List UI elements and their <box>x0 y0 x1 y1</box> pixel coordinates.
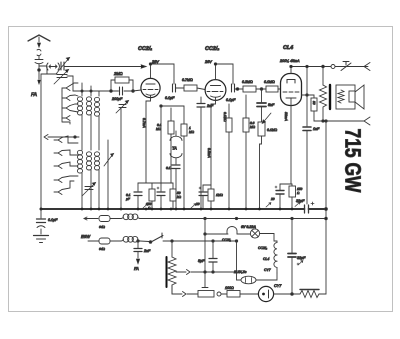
lower band switch contact 3 <box>54 164 62 169</box>
tube CC2/1 <box>141 78 160 97</box>
svg-text:20: 20 <box>270 197 275 201</box>
bus electrolytic 32uF <box>305 202 315 213</box>
voltage dropper zigzag <box>168 241 176 294</box>
heater line lamp <box>205 233 228 235</box>
capacitor 5uF <box>209 241 217 272</box>
upper band switch contact 1 <box>62 86 70 92</box>
svg-text:TA: TA <box>172 146 177 151</box>
screen resistor CC2/2 <box>226 104 232 209</box>
main ground bus <box>41 208 326 210</box>
mains line row 2 <box>88 240 99 242</box>
RF transformer lower winding 2 <box>86 152 91 209</box>
svg-text:FA: FA <box>134 266 139 271</box>
padder switch arrow <box>104 140 114 209</box>
svg-text:6V 0.22A: 6V 0.22A <box>241 225 256 229</box>
voltage dropper bar <box>166 257 168 287</box>
electrolytic leg <box>157 183 165 209</box>
oscillator trimmer <box>116 101 129 210</box>
connector fork bottom <box>364 117 370 125</box>
screen feed from rail <box>306 67 308 96</box>
speaker plug connector <box>331 65 335 69</box>
svg-text:0.1µF: 0.1µF <box>165 96 175 100</box>
tapped fuse box <box>198 288 214 298</box>
svg-text:kΩ: kΩ <box>177 195 182 199</box>
ground symbol <box>34 236 49 243</box>
svg-text:1nF: 1nF <box>313 127 320 131</box>
cathode bracket <box>138 182 173 184</box>
right rail from 32uF <box>288 219 299 295</box>
svg-text:80: 80 <box>312 101 316 105</box>
svg-text:28V: 28V <box>151 60 159 64</box>
svg-text:CC2/₂: CC2/₂ <box>258 246 268 250</box>
capacitor 2nF mains <box>134 240 142 264</box>
cathode line CC2/2 <box>211 101 216 189</box>
resistor 150ohm leg <box>149 183 155 209</box>
antenna series capacitor <box>35 56 43 69</box>
svg-text:64Ω: 64Ω <box>99 225 106 229</box>
electrolytic 20uF CL4 <box>275 184 284 209</box>
svg-text:64Ω: 64Ω <box>99 247 106 251</box>
fuse resistor 1 <box>99 216 110 222</box>
bus node dots <box>40 208 328 211</box>
band separator contact <box>44 135 79 140</box>
cathode resistor 1M CC2/2 <box>208 189 214 209</box>
svg-text:CY7: CY7 <box>264 268 271 272</box>
electrolytic 20uF <box>199 185 211 209</box>
node after cap <box>236 88 239 91</box>
lower band switch contact 2 <box>54 151 62 156</box>
svg-text:0.7mA: 0.7mA <box>142 118 146 129</box>
anode resistor 0.6M <box>243 95 249 209</box>
node junction <box>38 69 41 72</box>
lower contact tap wires <box>62 136 78 190</box>
tuning line to grid <box>65 65 147 68</box>
svg-text:CC2/₁: CC2/₁ <box>138 46 152 52</box>
grid line node <box>73 90 111 92</box>
anode bracket CC2/1 <box>151 64 175 84</box>
capacitor 0.1uF leg <box>134 183 142 209</box>
svg-text:200V, 45mA: 200V, 45mA <box>279 59 300 63</box>
RF transformer upper winding 2 <box>86 86 91 150</box>
RF transformer lower winding 3 <box>94 152 99 209</box>
svg-text:0.1MΩ: 0.1MΩ <box>264 80 275 84</box>
coupling capacitor 0.1uF <box>232 84 244 92</box>
polarity arrow <box>298 261 303 265</box>
upper band switch contact 4 <box>62 116 70 121</box>
tube CC2/2 <box>205 80 226 101</box>
wire grid to tube <box>133 90 141 91</box>
svg-text:FA: FA <box>31 92 38 98</box>
cathode line CC2/1 <box>146 98 151 183</box>
RF transformer upper winding 3 <box>94 91 99 150</box>
plug contact circle <box>217 292 221 296</box>
fuse resistor 2 <box>99 238 110 244</box>
polarity arrow <box>191 204 196 208</box>
svg-text:CC2/₂: CC2/₂ <box>205 46 219 52</box>
ground capacitor 0.1uF <box>37 209 46 234</box>
antenna <box>28 35 50 47</box>
speaker <box>336 85 364 109</box>
screen resistor 0.1M CC2/1 <box>168 108 174 183</box>
heater chain wire <box>260 234 277 242</box>
cathode bracket CL4 <box>280 183 292 185</box>
output transformer primary <box>320 67 327 122</box>
resistor 8ohm box <box>302 95 318 121</box>
wire to rectifier <box>240 293 259 295</box>
volume potentiometer 0.1M <box>258 113 271 209</box>
svg-text:0.1µF: 0.1µF <box>226 98 236 102</box>
grid leak resistor 2M <box>111 77 133 91</box>
resistor 0.1M <box>266 86 278 92</box>
bottom tap contact <box>172 285 198 297</box>
capacitor 0.1 <box>172 165 180 209</box>
svg-text:5µF: 5µF <box>198 259 205 263</box>
svg-text:30mA: 30mA <box>284 112 288 122</box>
tube CL4 <box>281 74 302 106</box>
anode bracket CC2/2 <box>216 64 234 84</box>
heater dropper resistor <box>300 290 326 298</box>
wire to CL4 grid <box>278 88 281 90</box>
svg-text:5nF: 5nF <box>268 103 275 107</box>
resistor 0.2M <box>243 86 256 92</box>
heater bumps CY7 <box>274 261 277 273</box>
svg-text:EUIX,5c: EUIX,5c <box>234 270 247 274</box>
mains choke 1 arrow <box>84 217 98 220</box>
capacitor 5nF <box>257 89 266 122</box>
CL4 cathode leg <box>290 106 292 185</box>
lower band switch contact 5 <box>54 190 62 195</box>
RF transformer lower winding 1 <box>77 150 82 209</box>
lower band switch contact 1 <box>54 138 62 143</box>
grid capacitor 200pF <box>111 87 133 95</box>
tap middle contact <box>176 270 237 275</box>
polarity arrow <box>266 203 271 207</box>
svg-text:CC2/₁: CC2/₁ <box>222 238 231 242</box>
polarity arrow <box>143 204 148 208</box>
capacitor 1nF <box>303 95 311 204</box>
svg-text:0.1MΩ: 0.1MΩ <box>267 128 278 132</box>
upper band switch contact 2 <box>62 96 70 101</box>
svg-text:MΩ: MΩ <box>189 130 195 134</box>
node between resistors <box>260 88 263 91</box>
svg-text:CL4: CL4 <box>263 257 269 261</box>
dial lamp <box>250 229 259 238</box>
svg-text:0.8mA: 0.8mA <box>207 148 211 159</box>
resistor 150ohm CL4 <box>289 184 296 209</box>
lower band switch contact 4 <box>54 178 62 183</box>
svg-text:32µF: 32µF <box>296 199 305 203</box>
mains switch <box>149 233 237 243</box>
choke coil 2 <box>110 236 149 242</box>
heater bumps CL4 <box>274 255 277 261</box>
FA down arrow <box>38 72 41 85</box>
trimmer capacitor <box>47 66 73 84</box>
transformer core <box>329 85 331 109</box>
svg-text:2nF: 2nF <box>206 104 214 108</box>
node line to 1M <box>161 105 184 107</box>
wave-change symbol <box>39 63 59 70</box>
choke coil 1 <box>110 214 140 220</box>
resistor 100ohm <box>227 291 240 298</box>
lower trimmer capacitor <box>82 183 96 197</box>
svg-text:2MΩ: 2MΩ <box>113 71 123 76</box>
polarity arrow <box>295 202 300 206</box>
svg-text:0.1MΩ: 0.1MΩ <box>223 112 227 122</box>
screen node <box>306 94 308 96</box>
resistor 50k leg <box>170 183 176 209</box>
RF transformer upper winding 1 <box>77 83 82 150</box>
svg-text:1MΩ: 1MΩ <box>216 193 223 197</box>
heater bus <box>140 218 326 220</box>
speaker bottom line <box>314 120 364 122</box>
grid resistor 1M <box>181 106 187 209</box>
svg-text:CY7: CY7 <box>274 284 282 288</box>
svg-text:0.7MΩ: 0.7MΩ <box>182 78 193 82</box>
antenna switch contacts <box>37 49 41 55</box>
CC2/1 heater bump <box>227 227 237 235</box>
upper contact tap wires <box>70 83 78 112</box>
coupling capacitor 0.1uF <box>173 84 185 92</box>
svg-text:2nF: 2nF <box>143 249 151 253</box>
svg-text:CL4: CL4 <box>283 45 293 51</box>
svg-text:200pF: 200pF <box>111 97 123 101</box>
far right rail <box>325 121 327 294</box>
switch on speaker line <box>341 62 351 71</box>
variable coupling capacitor <box>56 58 70 75</box>
resistor 0.7M <box>184 85 205 91</box>
svg-text:0.1µF: 0.1µF <box>48 218 58 222</box>
heater bumps CC2/2 <box>274 241 277 255</box>
connector fork top <box>364 63 370 71</box>
svg-text:0.1: 0.1 <box>166 166 171 170</box>
ballast tube EUIX <box>237 241 278 284</box>
decoupling capacitor 2nF <box>197 97 205 209</box>
heater tap vertical <box>204 219 206 288</box>
wire left rail down to bus <box>41 74 47 209</box>
anode top rail <box>291 67 368 74</box>
pickup jack TA <box>170 131 182 164</box>
svg-text:MΩ: MΩ <box>250 125 256 129</box>
wire trimmer to grid line <box>72 76 74 91</box>
upper band switch contact 3 <box>62 106 70 111</box>
upper contact bus wire <box>62 91 70 124</box>
svg-text:32µF: 32µF <box>297 256 306 260</box>
svg-text:E6W: E6W <box>81 234 91 239</box>
svg-text:0.2MΩ: 0.2MΩ <box>242 80 253 84</box>
rectifier tube CY7 <box>258 286 300 301</box>
svg-text:26V: 26V <box>204 60 212 64</box>
svg-text:100Ω: 100Ω <box>225 286 234 290</box>
svg-text:715 GW: 715 GW <box>341 129 366 193</box>
node dots grid <box>110 90 113 93</box>
